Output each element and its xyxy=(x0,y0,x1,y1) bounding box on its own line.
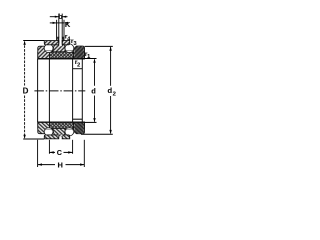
svg-text:K: K xyxy=(65,20,71,29)
svg-text:2: 2 xyxy=(113,91,116,97)
svg-text:d: d xyxy=(91,86,96,95)
svg-text:C: C xyxy=(57,148,62,157)
svg-text:2: 2 xyxy=(77,62,80,68)
svg-text:3: 3 xyxy=(74,41,77,47)
svg-text:D: D xyxy=(23,87,29,96)
svg-text:H: H xyxy=(57,161,62,170)
svg-text:b: b xyxy=(58,14,62,21)
svg-text:1: 1 xyxy=(87,54,90,60)
